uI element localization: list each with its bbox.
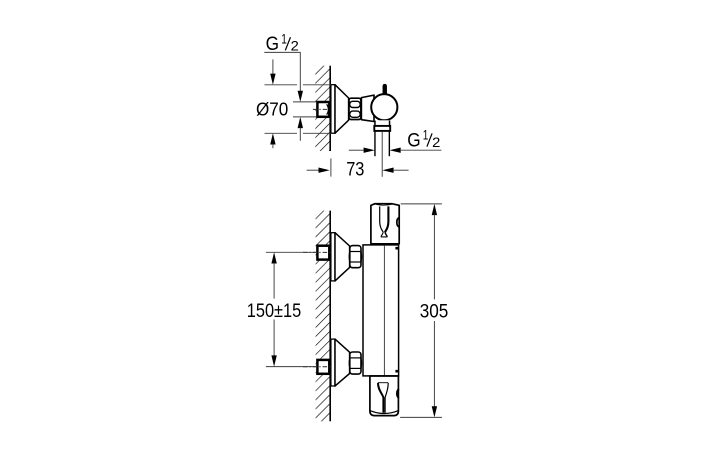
outlet neck below circle (top view) [375,120,390,126]
svg-text:2: 2 [432,134,440,150]
top knob face lens [375,204,392,205]
dimension: Ø70 extension lines [265,84,298,86]
upper escutcheon rim (bottom view) [331,233,335,281]
lower escutcheon rim (bottom view) [331,339,335,386]
svg-text:1: 1 [423,127,429,143]
upper escutcheon cone (bottom view) [335,233,350,281]
dimension: 150±15 extension lines [266,251,317,253]
outlet collar ring (top view) [374,126,390,131]
dimension: G 1/2 label top-left with leader [264,30,303,141]
dimension: Ø70 arrows [270,59,275,148]
lower inlet centerline [303,366,331,368]
svg-text:2: 2 [291,38,299,54]
dimension: G 1/2 at outlet [349,127,442,153]
wall surface edge line (bottom view) [329,211,331,422]
extension lines of thread G1/2 at wall (top view) [293,101,317,103]
dimension: 305 line and arrows [432,204,437,418]
thermostat body column (bottom view) [363,245,399,376]
upper inlet centerline [303,251,331,253]
outlet pipe (top view) [374,131,376,156]
escutcheon cone (top view) [335,85,349,134]
centerline of inlet (top view) [313,108,330,110]
temperature handle (top knob, bottom view) [371,204,399,244]
lower union nut (bottom view) [349,352,361,374]
lower escutcheon cone (bottom view) [335,339,350,386]
temperature scale mark lower [395,370,398,373]
valve body cone (top view) [361,95,374,121]
flow handle (bottom knob, bottom view) [370,376,399,416]
svg-text:Ø70: Ø70 [256,100,288,120]
upper inlet square in wall (bottom view) [317,246,329,260]
bottom knob grip channel [378,383,388,413]
temperature handle pin (top view) [383,84,386,93]
temperature scale mark upper [395,247,398,250]
dimension: 150±15 line and arrows [271,252,276,366]
body inner edge line [383,246,385,376]
wall hatch (top view) [315,66,330,151]
bottom knob base arc [370,411,398,414]
svg-text:305: 305 [420,301,449,322]
svg-text:1: 1 [281,30,287,46]
svg-text:G: G [407,130,420,151]
union hex nut (top view) [349,98,361,119]
valve body circle (top view) [371,94,397,120]
svg-text:73: 73 [346,160,364,181]
upper union nut (bottom view) [349,246,361,268]
bottom knob side button [397,389,399,398]
escutcheon rim at wall (top view) [331,85,335,134]
dimension: 73 [307,132,409,181]
wall surface edge line (top view) [329,66,331,151]
svg-text:150±15: 150±15 [247,301,301,322]
lower inlet square in wall (bottom view) [317,360,329,374]
inlet pipe square in wall (top view) [317,102,329,117]
top knob side button [397,218,399,227]
pipe elbow arc inside square (top view) [327,104,329,114]
top knob grip channel [380,206,389,237]
wall hatch (bottom view) [316,211,330,422]
dimension: 305 extension lines [401,203,442,205]
